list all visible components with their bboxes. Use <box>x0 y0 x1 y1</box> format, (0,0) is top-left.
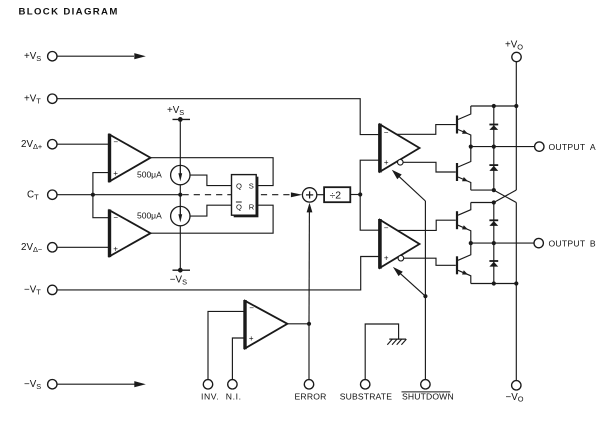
comparator U1 <box>110 135 151 182</box>
svg-text:−VT: −VT <box>24 285 41 297</box>
wire OUTPUT A row <box>471 146 535 148</box>
transistor Q4 <box>456 256 458 274</box>
svg-text:−VS: −VS <box>170 275 187 287</box>
wire -VT to comparator U4 plus input <box>57 257 380 290</box>
flip-flop FF1 shadow <box>234 177 259 218</box>
wire cross X right-down <box>494 190 517 202</box>
wire divider to U4 minus input <box>360 195 380 231</box>
svg-text:−: − <box>113 138 118 147</box>
terminal -VT <box>48 285 57 294</box>
node output B diode junction <box>492 241 496 245</box>
wire U2 output to flip-flop R <box>151 205 274 233</box>
terminal +VT <box>48 94 57 103</box>
diode D4 <box>489 260 498 262</box>
node pair B top <box>492 200 496 204</box>
wire shutdown to terminal <box>424 296 426 380</box>
terminal +VO <box>512 52 521 61</box>
wire -VS arrow shaft <box>57 383 136 385</box>
+VS supply bar <box>173 118 191 120</box>
svg-text:+: + <box>249 334 254 343</box>
wire divider to U3 plus input <box>360 160 379 194</box>
svg-text:+: + <box>113 169 118 178</box>
diode D1 <box>489 124 498 126</box>
error amplifier U5 <box>245 301 287 349</box>
wire ERROR node up to summer <box>308 209 310 324</box>
svg-text:2VΔ+: 2VΔ+ <box>21 139 42 151</box>
svg-text:−: − <box>384 224 389 233</box>
svg-text:Q: Q <box>236 202 242 211</box>
ground (chassis) <box>389 338 406 340</box>
node CT junction <box>91 193 95 197</box>
wire pair A bottom <box>471 189 494 191</box>
terminal NI <box>228 380 237 389</box>
wire summer to divider <box>317 194 324 196</box>
wire U4 to Q3 base <box>398 220 456 230</box>
node output B emitter junction <box>469 241 473 245</box>
svg-text:ERROR: ERROR <box>295 392 327 402</box>
wire U5 output to ERROR node <box>287 323 309 325</box>
divider block /2 <box>324 187 350 202</box>
terminal SHUTDOWN <box>421 380 430 389</box>
node output A diode junction <box>492 145 496 149</box>
wire +VO rail down <box>515 62 517 190</box>
wire pair A top rail <box>471 105 517 107</box>
comparator U4 (output B driver) <box>380 220 420 268</box>
terminal OUTPUT B <box>534 238 543 247</box>
-VS supply bar <box>173 269 191 271</box>
svg-text:−VS: −VS <box>24 379 41 391</box>
wire CT to U2 minus input <box>93 195 110 218</box>
wire OUTPUT B row <box>471 242 534 244</box>
terminal OUTPUT A <box>535 142 544 151</box>
current source I2 500uA <box>171 206 190 225</box>
svg-text:+VO: +VO <box>505 40 523 52</box>
transistor Q1 <box>456 116 458 134</box>
summer S1 <box>302 188 316 202</box>
wire +VS arrow shaft <box>57 55 134 57</box>
svg-text:N.I.: N.I. <box>226 392 242 402</box>
svg-text:S: S <box>249 181 254 190</box>
svg-text:CT: CT <box>27 190 39 202</box>
terminal SUBSTRATE <box>361 380 370 389</box>
wire NI to U5 plus input <box>232 338 245 380</box>
node pair B bottom -VO <box>514 281 518 285</box>
svg-text:500μA: 500μA <box>137 211 162 221</box>
svg-text:+VS: +VS <box>24 51 41 63</box>
node shutdown junction <box>423 294 427 298</box>
svg-text:÷2: ÷2 <box>330 191 342 202</box>
wire SUBSTRATE to ground <box>365 324 398 380</box>
wire diode chain B <box>493 203 495 284</box>
svg-text:−VO: −VO <box>506 392 524 404</box>
wire divider output <box>350 194 360 196</box>
node pair B bottom diode <box>492 281 496 285</box>
arrowhead +VS <box>134 53 146 59</box>
svg-text:500μA: 500μA <box>137 170 162 180</box>
node CT to supply rail junction <box>178 193 182 197</box>
svg-text:+VT: +VT <box>24 94 41 106</box>
svg-text:−: − <box>249 303 254 312</box>
wire dashed CT ramp signal to summer <box>183 194 298 196</box>
svg-text:+: + <box>384 254 389 263</box>
diode D3 <box>489 219 498 221</box>
wire U4 bubble to Q4 base <box>404 258 456 265</box>
shutdown arrow to U4 <box>400 273 426 296</box>
supply rail vertical through current sources <box>179 119 181 165</box>
wire ERROR node down to terminal <box>308 324 310 380</box>
wire 2VD- to comparator U2 plus input <box>57 246 110 248</box>
comparator U3 (output A driver) <box>380 124 420 171</box>
wire U1 output to flip-flop S <box>151 158 274 186</box>
terminal CT <box>48 190 57 199</box>
terminal INV <box>203 380 212 389</box>
svg-text:+: + <box>384 158 389 167</box>
node top rail diode <box>492 104 496 108</box>
wire -VO rail down <box>515 203 517 381</box>
svg-text:INV.: INV. <box>201 392 219 402</box>
flip-flop FF1 body <box>232 175 257 216</box>
svg-text:+VS: +VS <box>167 105 184 117</box>
node ERROR junction <box>307 322 311 326</box>
svg-text:+: + <box>113 244 118 253</box>
wire U3 to Q1 base <box>397 125 456 135</box>
svg-text:SHUTDOWN: SHUTDOWN <box>402 392 454 402</box>
terminal -VO <box>512 381 521 390</box>
svg-text:OUTPUT A: OUTPUT A <box>549 142 596 152</box>
terminal -VS (bottom left) <box>48 380 57 389</box>
arrowhead -VS <box>134 381 146 387</box>
diode D2 <box>489 164 498 166</box>
wire CT bus <box>57 194 181 196</box>
svg-text:SUBSTRATE: SUBSTRATE <box>340 392 392 402</box>
node top rail +VO <box>514 104 518 108</box>
arrowhead into summer bottom <box>307 203 313 213</box>
terminal +VS (top left) <box>48 52 57 61</box>
wire 2VD+ to comparator U1 minus input <box>57 143 110 145</box>
shutdown arrow to U3 <box>398 175 426 201</box>
wire pair B bottom rail <box>471 283 517 285</box>
inhibit bubble U4 <box>398 255 404 261</box>
svg-text:BLOCK DIAGRAM: BLOCK DIAGRAM <box>19 6 119 17</box>
wire shutdown vertical upper <box>424 201 426 296</box>
wire I2 to flip-flop Qbar <box>190 205 232 216</box>
wire CT to U1 plus input <box>93 173 110 195</box>
wire INV to U5 minus input <box>208 311 245 380</box>
transistor Q3 <box>456 211 458 229</box>
svg-text:−: − <box>113 213 118 222</box>
node output A emitter junction <box>469 145 473 149</box>
node divider output <box>358 192 362 196</box>
terminal 2VD+ <box>48 140 57 149</box>
wire +VT to comparator U3 minus input <box>57 99 379 135</box>
arrowhead into summer <box>291 192 303 197</box>
transistor Q2 <box>456 163 458 181</box>
wire U3 bubble to Q2 base <box>403 162 456 172</box>
terminal 2VD- <box>48 243 57 252</box>
terminal ERROR <box>304 380 313 389</box>
inhibit bubble U3 <box>398 160 404 166</box>
svg-text:Q: Q <box>236 181 242 190</box>
svg-text:−: − <box>384 128 389 137</box>
wire diode chain A <box>493 106 495 190</box>
wire I1 to flip-flop Q <box>190 175 232 186</box>
svg-text:2VΔ−: 2VΔ− <box>21 242 42 254</box>
wire pair B top rail <box>471 202 494 204</box>
comparator U2 <box>110 210 151 256</box>
wire cross X left-down <box>494 190 517 203</box>
svg-text:R: R <box>249 202 255 211</box>
node pair A bottom <box>492 188 496 192</box>
svg-text:OUTPUT B: OUTPUT B <box>549 239 596 249</box>
current source I1 500uA <box>171 165 190 184</box>
